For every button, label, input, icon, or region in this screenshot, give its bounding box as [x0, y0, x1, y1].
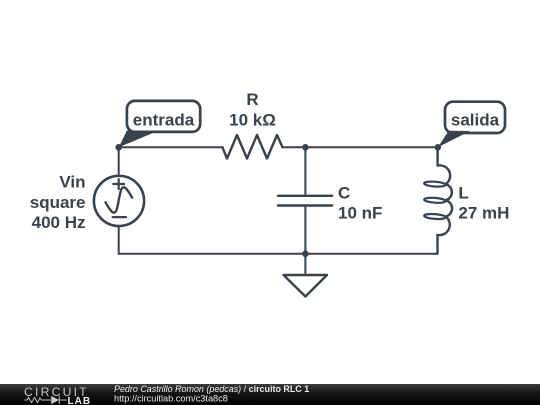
- wire top: node B to node C (salida): [305, 146, 437, 148]
- callout salida tail: [438, 131, 470, 147]
- svg-text:salida: salida: [451, 111, 500, 130]
- svg-text:R: R: [246, 90, 258, 109]
- svg-text:10 nF: 10 nF: [338, 203, 382, 222]
- node A junction dot: [115, 144, 122, 151]
- ground node junction dot: [302, 251, 309, 258]
- node C junction dot: [435, 144, 442, 151]
- inductor L1 loop ellipse 1: [424, 181, 446, 187]
- capacitor C1 bottom plate: [278, 204, 332, 206]
- inductor L1 loop ellipse 2: [424, 197, 446, 203]
- wire capacitor branch lower: C bottom plate to ground node: [304, 207, 306, 254]
- wire ground stub: [304, 254, 306, 275]
- voltage source V1 plus sign: [112, 178, 125, 190]
- wire left branch lower: source V1 bottom to bottom rail: [118, 226, 120, 254]
- svg-text:L: L: [458, 184, 468, 203]
- svg-text:http://circuitlab.com/c3ta8c8: http://circuitlab.com/c3ta8c8: [114, 394, 228, 404]
- voltage source V1 circle: [94, 176, 144, 226]
- capacitor C1 top plate: [278, 195, 332, 197]
- svg-text:entrada: entrada: [133, 110, 195, 129]
- svg-text:LAB: LAB: [68, 396, 92, 405]
- callout entrada box: [127, 101, 200, 132]
- svg-text:27 mH: 27 mH: [458, 204, 509, 223]
- resistor R1 zigzag: [223, 135, 283, 159]
- ground symbol triangle: [284, 275, 328, 297]
- voltage source V1 sine squiggle: [106, 187, 133, 212]
- wire capacitor branch upper: node B down to C top plate: [304, 147, 306, 194]
- wire bottom rail: left corner to ground node: [119, 253, 306, 255]
- svg-text:C: C: [338, 183, 350, 202]
- svg-text:10 kΩ: 10 kΩ: [229, 111, 276, 130]
- svg-text:Vin: Vin: [59, 173, 85, 192]
- voltage source V1 minus sign: [113, 216, 126, 218]
- inductor L1 coil: [438, 147, 453, 253]
- logo doodle diode triangle: [51, 396, 59, 404]
- svg-text:Pedro Castrillo Romon (pedcas): Pedro Castrillo Romon (pedcas) / circuit…: [114, 384, 309, 394]
- node B junction dot: [302, 144, 309, 151]
- wire bottom rail: ground node to right corner: [305, 253, 437, 255]
- callout salida box: [445, 102, 505, 133]
- callout entrada tail: [119, 130, 159, 147]
- inductor L1 loop ellipse 3: [424, 213, 446, 219]
- svg-text:square: square: [30, 193, 86, 212]
- wire left branch upper: node A down to source V1 top: [118, 147, 120, 174]
- wire top: resistor right lead to node B: [283, 146, 306, 148]
- svg-text:400 Hz: 400 Hz: [32, 213, 86, 232]
- logo doodle resistor zigzag and diode: [25, 396, 67, 404]
- wire top: node A to resistor left lead: [119, 146, 223, 148]
- footer bar: [0, 384, 540, 405]
